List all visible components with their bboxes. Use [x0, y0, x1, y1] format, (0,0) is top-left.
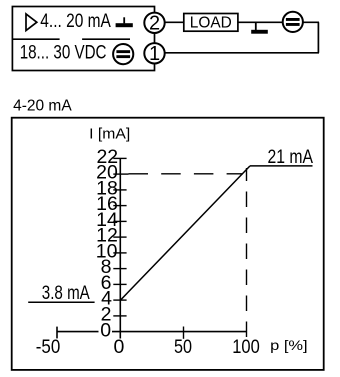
y-axis — [119, 158, 121, 338]
separator line segment B — [82, 38, 130, 40]
wire terminal2 to LOAD — [155, 21, 186, 23]
svg-text:21 mA: 21 mA — [268, 147, 314, 168]
load resistor LOAD — [184, 14, 238, 32]
DC voltage symbol in box — [113, 44, 133, 64]
svg-text:I [mA]: I [mA] — [89, 126, 130, 142]
dashed line at 20 mA — [129, 173, 244, 175]
DC source — [283, 12, 303, 32]
x-axis tick at 50 — [183, 327, 185, 339]
svg-text:100: 100 — [232, 336, 260, 358]
knockout for zero label — [99, 326, 113, 339]
3.8 mA reference line — [28, 301, 94, 303]
svg-text:LOAD: LOAD — [190, 15, 232, 32]
svg-text:4... 20 mA: 4... 20 mA — [40, 11, 111, 32]
svg-text:0: 0 — [113, 336, 124, 358]
x-axis numerals — [36, 336, 260, 358]
output symbol triangle — [26, 14, 37, 31]
svg-text:p [%]: p [%] — [270, 337, 308, 353]
output curve saturation at 21 mA — [250, 165, 313, 167]
separator line segment A — [12, 38, 60, 40]
dashed line at 100 percent — [246, 168, 248, 337]
y-axis ticks — [113, 158, 128, 316]
svg-text:50: 50 — [174, 336, 192, 358]
y-axis numerals — [96, 146, 118, 342]
x-axis end tick at -50 — [56, 327, 58, 339]
svg-text:1: 1 — [149, 43, 160, 65]
svg-text:2: 2 — [149, 13, 160, 35]
terminal 2 — [144, 13, 164, 35]
wire right vertical — [317, 22, 319, 53]
output curve diagonal — [120, 166, 250, 300]
ground — [251, 22, 268, 33]
svg-text:18... 30 VDC: 18... 30 VDC — [20, 43, 107, 64]
svg-text:-50: -50 — [36, 336, 61, 358]
chart frame — [12, 118, 324, 370]
functional earth symbol in box — [116, 17, 133, 27]
svg-text:3.8 mA: 3.8 mA — [42, 283, 90, 304]
terminal 1 — [144, 43, 164, 65]
svg-text:4-20 mA: 4-20 mA — [13, 97, 72, 114]
x-axis — [57, 331, 247, 333]
device box — [12, 7, 154, 71]
wire LOAD to DC source — [237, 21, 319, 23]
wire DC source to terminal1 — [155, 52, 320, 54]
svg-text:0: 0 — [100, 320, 111, 342]
